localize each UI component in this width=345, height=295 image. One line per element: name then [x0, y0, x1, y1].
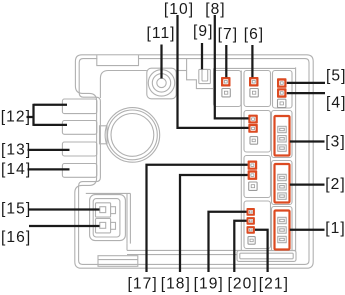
svg-text:[21]: [21]	[259, 276, 289, 293]
svg-text:[10]: [10]	[164, 1, 194, 18]
svg-text:[14]: [14]	[1, 161, 31, 178]
svg-text:[7]: [7]	[218, 26, 239, 43]
svg-text:[16]: [16]	[1, 229, 31, 246]
svg-text:[5]: [5]	[326, 68, 345, 85]
svg-text:[6]: [6]	[244, 26, 265, 43]
svg-text:[9]: [9]	[193, 23, 214, 40]
svg-text:[20]: [20]	[228, 276, 258, 293]
svg-text:[2]: [2]	[325, 176, 345, 193]
svg-text:[19]: [19]	[194, 276, 224, 293]
svg-text:[15]: [15]	[1, 200, 31, 217]
svg-text:[4]: [4]	[326, 95, 345, 112]
svg-text:[13]: [13]	[1, 141, 31, 158]
svg-text:[18]: [18]	[161, 276, 191, 293]
svg-text:[3]: [3]	[325, 134, 345, 151]
svg-text:[17]: [17]	[128, 276, 158, 293]
svg-text:[11]: [11]	[147, 25, 176, 42]
svg-text:[1]: [1]	[325, 220, 345, 237]
svg-text:[12]: [12]	[1, 109, 31, 126]
svg-text:[8]: [8]	[205, 1, 226, 18]
